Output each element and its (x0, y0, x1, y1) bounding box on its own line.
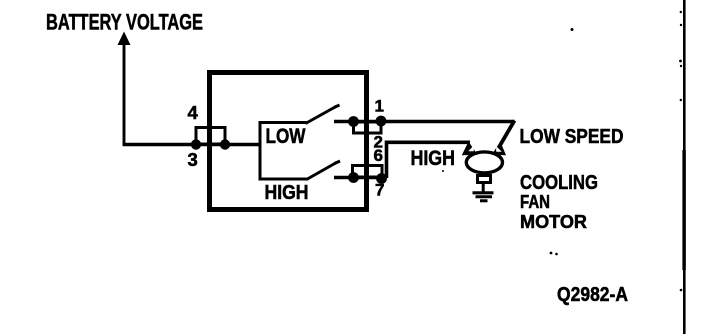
svg-text:FAN: FAN (520, 192, 550, 212)
svg-text:4: 4 (188, 102, 199, 123)
svg-text:BATTERY VOLTAGE: BATTERY VOLTAGE (46, 9, 203, 34)
svg-text:MOTOR: MOTOR (520, 211, 587, 232)
svg-text:6: 6 (374, 146, 383, 165)
svg-text:1: 1 (375, 97, 384, 116)
svg-text:HIGH: HIGH (411, 146, 456, 170)
svg-text:LOW: LOW (266, 124, 307, 148)
svg-text:COOLING: COOLING (520, 172, 598, 194)
svg-text:Q2982-A: Q2982-A (557, 284, 628, 306)
svg-text:3: 3 (188, 149, 198, 170)
svg-text:HIGH: HIGH (265, 182, 309, 204)
svg-text:7: 7 (375, 181, 384, 200)
svg-text:LOW SPEED: LOW SPEED (520, 126, 624, 148)
